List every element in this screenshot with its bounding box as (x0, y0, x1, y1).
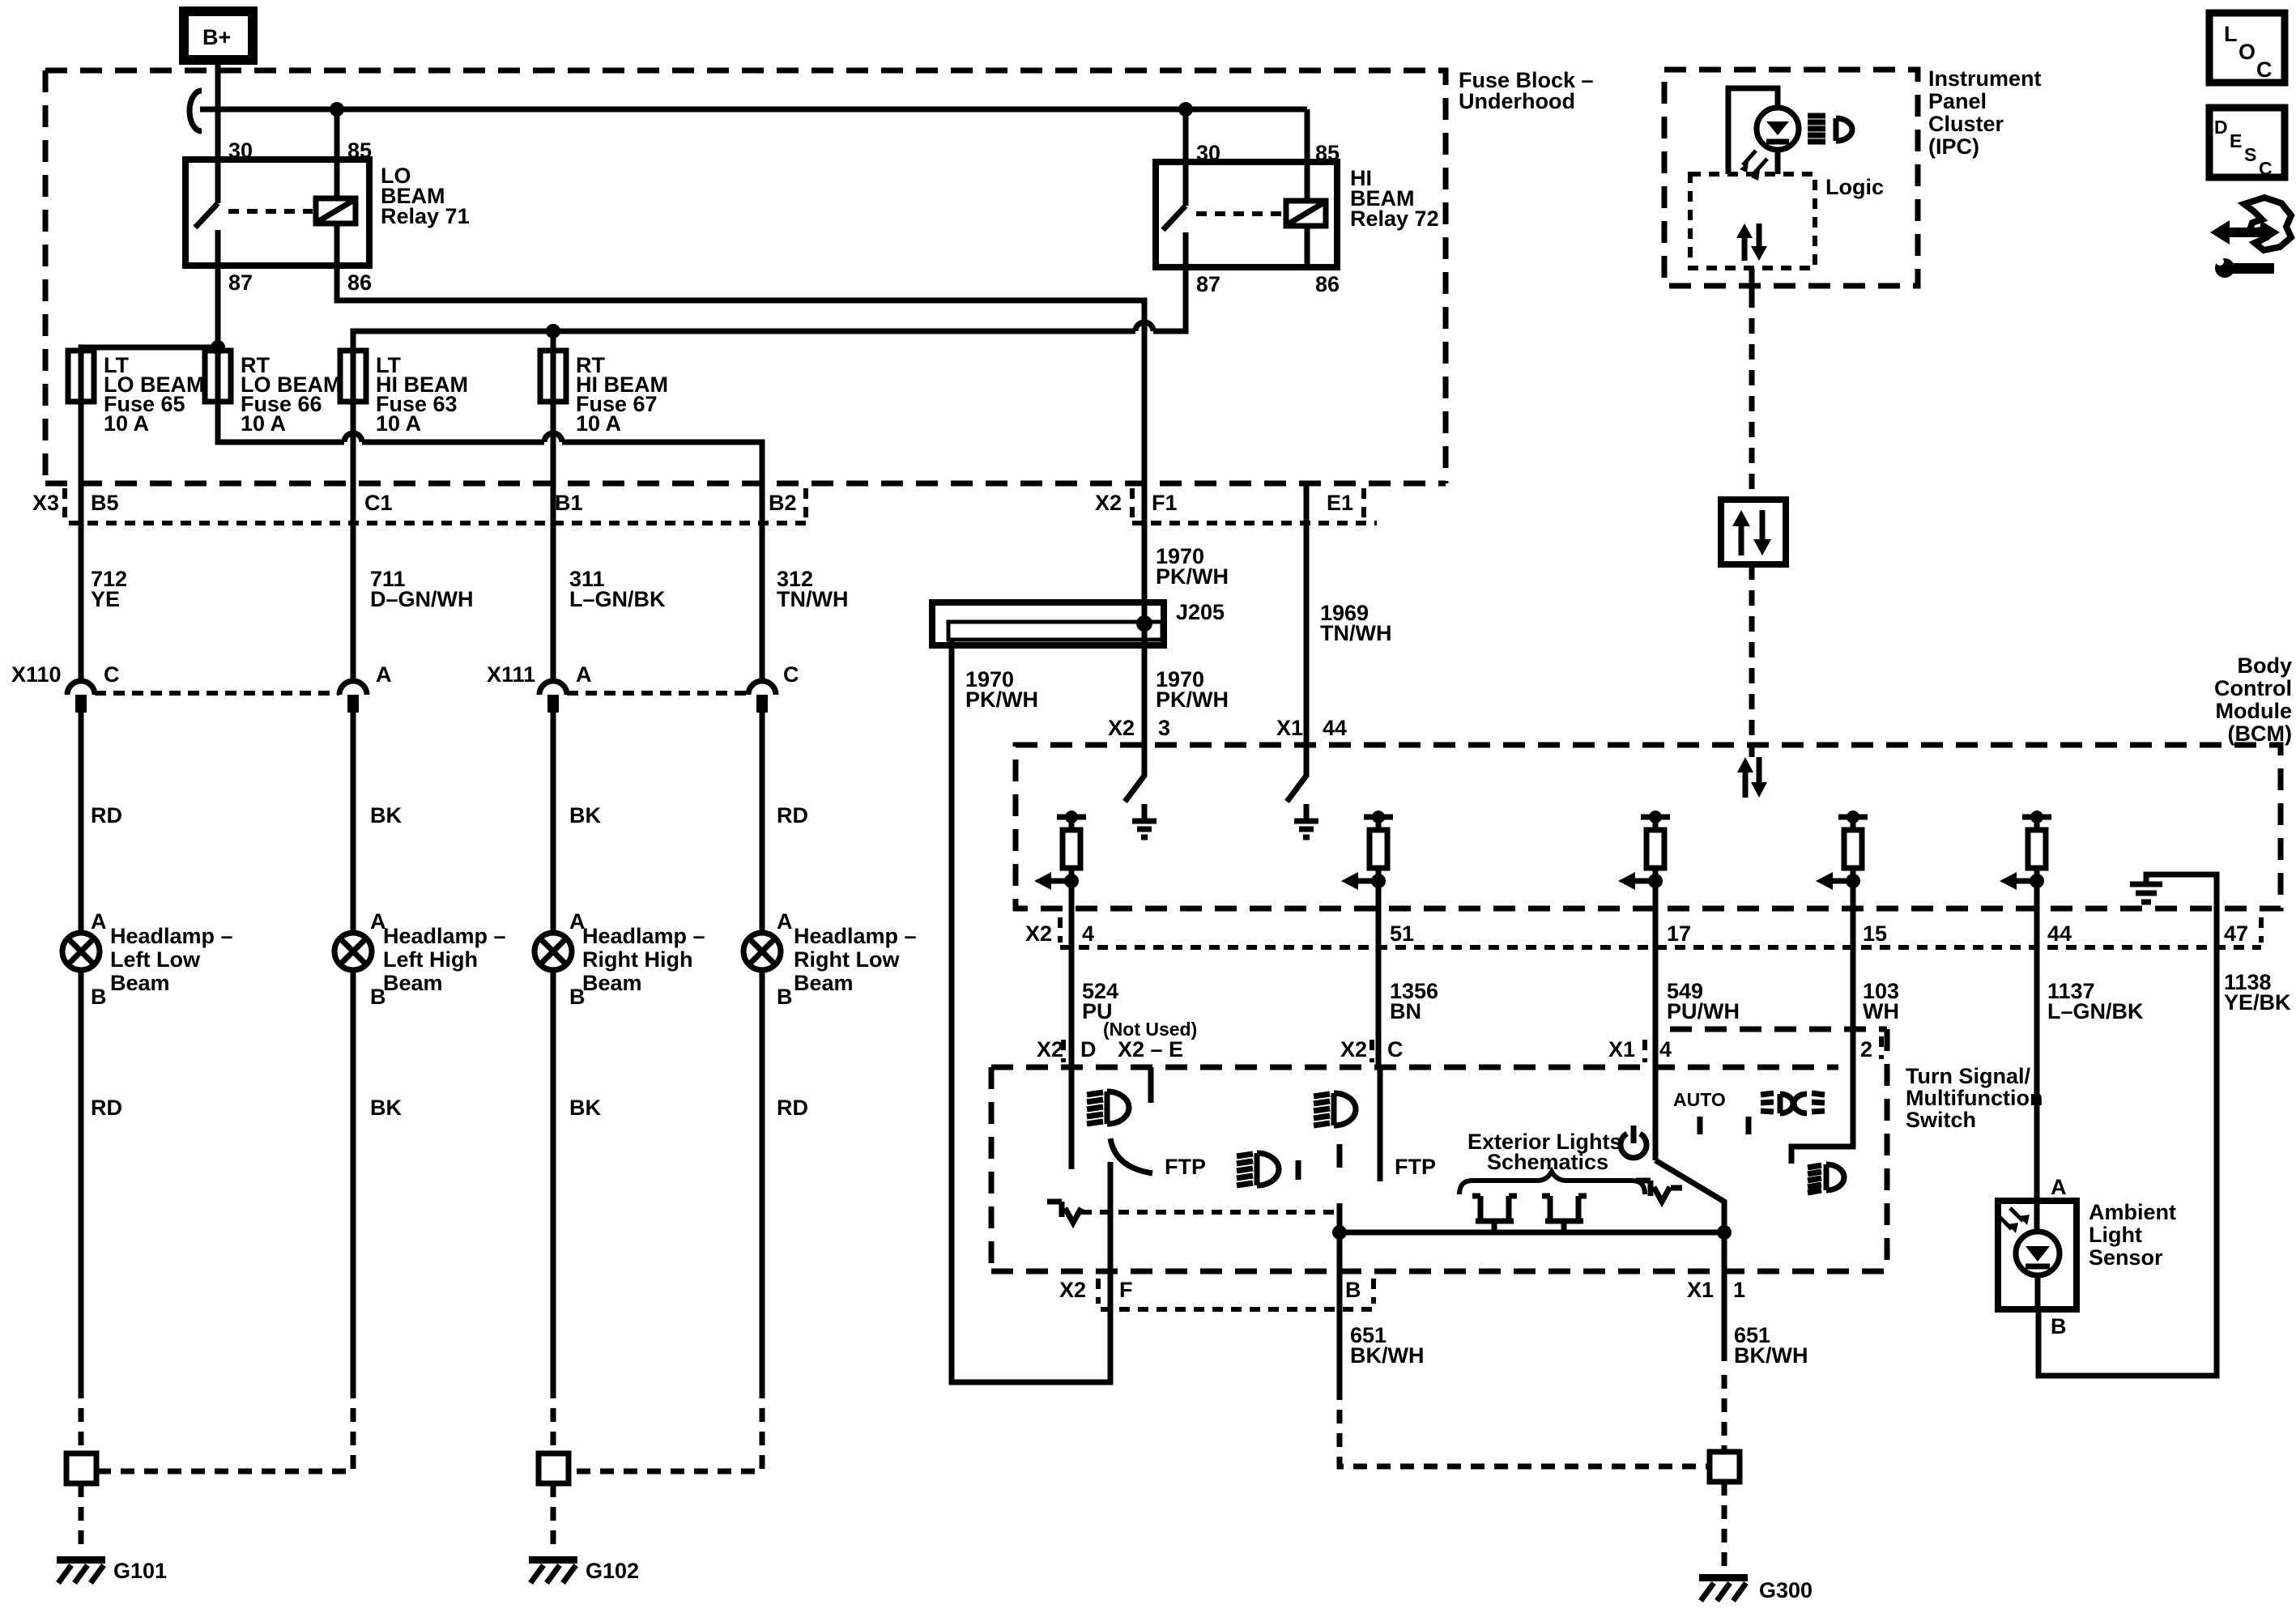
svg-text:C: C (104, 662, 120, 687)
BCM 47 separator dash (2259, 917, 2264, 943)
X3 separator dash (62, 488, 67, 518)
wire: 1138 YE/BK from BCM pin47 to ambient light sensor B (2038, 908, 2217, 1376)
detent dash under AUTO (1698, 1117, 1703, 1134)
svg-text:Control: Control (2214, 676, 2292, 700)
label: RD/BK wire colors (lower) (91, 1096, 808, 1120)
svg-text:B+: B+ (202, 25, 231, 49)
BCM serial data arrows (1737, 757, 1767, 798)
wire: left low headlamp ground lead (79, 970, 84, 1385)
dashed serial data line (box to BCM) (1749, 564, 1755, 757)
svg-text:B: B (2051, 1314, 2067, 1338)
label: Headlamp - Left High Beam (383, 924, 506, 995)
switch ganged-link symbol (right) (1636, 1181, 1682, 1202)
svg-text:B: B (1345, 1278, 1361, 1302)
wire: B+ feed bus to relay coils (y=135) (200, 107, 1307, 113)
label: BCM bottom pins (1025, 921, 2248, 946)
svg-text:87: 87 (228, 270, 253, 295)
DESC box (2209, 108, 2285, 179)
svg-text:Logic: Logic (1825, 175, 1884, 199)
ground G102 (529, 1556, 639, 1583)
switch blade (headlamp switch) (1655, 1160, 1724, 1232)
svg-text:C: C (2259, 158, 2273, 179)
wire: 524 PU from BCM pin4 to switch X2-D (1069, 908, 1075, 1067)
wire: J205 internal bus (948, 622, 1162, 640)
svg-text:Multifunction: Multifunction (1906, 1086, 2043, 1110)
serial data box arrows (1732, 510, 1771, 555)
wire: fuse 66 output bus to B2 (hops over C1 and B1 wires) (218, 402, 762, 483)
wrench icon (2215, 257, 2274, 278)
svg-text:L–GN/BK: L–GN/BK (2047, 999, 2144, 1023)
svg-text:BN: BN (1390, 999, 1421, 1023)
svg-text:B: B (569, 985, 586, 1009)
wire: B2 drop to X111-C (760, 483, 765, 680)
splice pack J205 box (932, 602, 1164, 645)
svg-text:Schematics: Schematics (1487, 1150, 1608, 1174)
label: Instrument Panel Cluster (IPC) (1928, 66, 2042, 159)
svg-text:FTP: FTP (1165, 1155, 1206, 1179)
label: switch bottom pins X2 F, B, X1 1 (1059, 1278, 1745, 1302)
relay LO BEAM Relay 71 box (185, 160, 369, 266)
connector row X2(F1/E1) lower dashed line (1132, 521, 1377, 526)
label: circuit 1970 PK/WH (right branch) (1156, 667, 1229, 712)
svg-text:85: 85 (1315, 141, 1340, 165)
svg-text:B5: B5 (91, 491, 119, 515)
BCM switch to ground (X1-44) (1287, 745, 1318, 837)
svg-text:Right High: Right High (582, 947, 692, 972)
relay 71 switch contact (195, 160, 218, 266)
IPC indicator LED (1740, 108, 1799, 181)
connector X111 terminal A (arc + blade) (539, 681, 567, 713)
svg-text:L: L (2224, 22, 2238, 46)
icon: low beam lamp (left of C contact) (1314, 1093, 1356, 1126)
hand with double arrow icon (2210, 198, 2291, 250)
lamp: Headlamp Right High Beam (535, 933, 572, 970)
wire: J205 left branch down to multifunction switch F loop (952, 640, 1110, 1382)
relay 72 pin labels (1196, 141, 1340, 296)
switch ganged-link symbol (left) (1047, 1202, 1081, 1223)
icon: headlamps-on (1761, 1093, 1825, 1113)
BCM connector row lower dashed line (1060, 945, 2261, 950)
svg-text:B1: B1 (555, 491, 583, 515)
label: circuit 1137 L-GN/BK (2047, 979, 2144, 1023)
svg-text:WH: WH (1863, 999, 1899, 1023)
fuse LT LO BEAM Fuse 65 (68, 351, 94, 402)
IPC indicator photodiode bracket (1728, 88, 1778, 174)
wire: C1 drop to X110-A (351, 483, 356, 680)
wire: 1356 BN from BCM pin51 to switch X2-C (1376, 908, 1382, 1067)
wire: logic box stub (1749, 268, 1755, 292)
svg-text:D–GN/WH: D–GN/WH (370, 587, 474, 611)
label: circuit 312 TN/WH (777, 567, 848, 611)
svg-text:Left Low: Left Low (110, 947, 201, 972)
svg-text:15: 15 (1863, 921, 1887, 946)
svg-text:AUTO: AUTO (1673, 1089, 1726, 1110)
inline connector square at G101 (66, 1453, 96, 1483)
wire: X1-4 feed to switch blade (1653, 1067, 1659, 1160)
switch bottom pin separators (1098, 1279, 1374, 1304)
svg-text:Headlamp –: Headlamp – (110, 924, 233, 948)
svg-text:17: 17 (1667, 921, 1691, 946)
label: X110 pins (11, 662, 392, 687)
wire: X2-D contact stub (1069, 1067, 1075, 1169)
wire: B 651 BK/WH below connector (1337, 1271, 1343, 1386)
svg-text:F: F (1119, 1278, 1133, 1302)
label: HI BEAM Relay 72 (1350, 166, 1439, 231)
svg-text:J205: J205 (1176, 600, 1225, 624)
B+ power terminal (184, 11, 253, 60)
wire: relay71 pin87 to lo-beam fuse bus (81, 266, 218, 351)
junction dot at B contact (1332, 1225, 1347, 1240)
svg-text:BK: BK (569, 1096, 601, 1120)
relay 71 pin labels (228, 138, 372, 295)
icon: low beam lamp (left of D contact) (1087, 1091, 1129, 1124)
svg-text:E1: E1 (1327, 491, 1353, 515)
svg-text:A: A (2051, 1175, 2067, 1199)
svg-text:X2: X2 (1340, 1037, 1367, 1062)
wire: BK to right high headlamp (551, 713, 556, 933)
fuse RT HI BEAM Fuse 67 (540, 351, 566, 402)
label: Fuse 65 (104, 353, 205, 436)
BCM driver output pin 4 (1034, 811, 1086, 908)
connection break hook symbol (190, 91, 202, 131)
wire: fuse 65 output to X3-B5 (79, 402, 84, 483)
wire: B+ feed down to relay 71 pin 30 (215, 60, 221, 160)
label: headlamp pin B row (91, 985, 793, 1009)
wire: 549 PU/WH from BCM pin17 to switch X1-4 (1653, 908, 1659, 1067)
wire: J205 right branch down to BCM X2-3 (1142, 624, 1148, 745)
X2-F1 separator dash (1130, 488, 1135, 518)
svg-text:Headlamp –: Headlamp – (582, 924, 705, 948)
svg-text:E: E (2230, 130, 2242, 151)
svg-text:Instrument: Instrument (1928, 66, 2042, 91)
relay 72 switch contact (1163, 162, 1186, 267)
svg-text:X111: X111 (487, 662, 535, 687)
svg-text:(BCM): (BCM) (2228, 721, 2292, 746)
connector X110 terminal A (arc + blade) (339, 681, 367, 713)
dashed serial data line (IPC to inline box) (1749, 292, 1755, 500)
svg-text:X2: X2 (1059, 1278, 1086, 1302)
wire: relay72 pin87 to hi-beam fuse bus (hops over 1413 wire) (353, 267, 1186, 351)
svg-text:TN/WH: TN/WH (1320, 621, 1391, 645)
label: circuit 1356 BN (1390, 979, 1438, 1023)
svg-text:2: 2 (1860, 1037, 1872, 1062)
wire: B1 drop to X111-A (551, 483, 556, 680)
label: circuit 549 PU/WH (1667, 979, 1740, 1023)
svg-text:BK: BK (370, 1096, 402, 1120)
wire: switch common bar (1340, 1230, 1724, 1236)
BCM internal ground for pin 47 (2130, 874, 2217, 908)
svg-text:B: B (777, 985, 793, 1009)
wire: right high headlamp ground lead (551, 970, 556, 1385)
svg-text:47: 47 (2224, 921, 2248, 946)
junction dot at relay71 pin85 feed (330, 102, 344, 117)
svg-text:4: 4 (1082, 921, 1094, 946)
connector row X3/X2 upper dashed line (45, 481, 1446, 487)
svg-text:10 A: 10 A (576, 411, 621, 436)
svg-text:Panel: Panel (1928, 89, 1987, 113)
wire: X2-E not used stub (1148, 1067, 1154, 1103)
svg-text:Sensor: Sensor (2089, 1245, 2163, 1270)
fixed contact mark above B (1337, 1144, 1343, 1168)
icon: low beam lamp (right branch) (1808, 1164, 1844, 1193)
ground G101 (57, 1556, 167, 1583)
svg-text:BK: BK (370, 803, 402, 828)
label: Headlamp - Left Low Beam (110, 924, 233, 995)
svg-text:RD: RD (777, 1096, 808, 1120)
relay 71 coil (316, 198, 356, 266)
wire: E1 1969 TN/WH down to BCM X1-44 (1304, 483, 1310, 745)
svg-text:Switch: Switch (1906, 1108, 1976, 1132)
svg-text:PK/WH: PK/WH (1156, 687, 1229, 712)
svg-text:Body: Body (2238, 653, 2293, 678)
junction dot in J205 (1136, 615, 1152, 632)
junction dot at common/blade (1717, 1225, 1732, 1240)
svg-text:Beam: Beam (794, 971, 854, 995)
LOC box (2209, 13, 2285, 83)
svg-text:X2: X2 (1037, 1037, 1063, 1062)
label: X111 pins (487, 662, 799, 687)
detent dash under headlamps-on icon (1746, 1117, 1752, 1134)
label: Turn Signal / Multifunction Switch (1906, 1064, 2043, 1132)
wire: B contact bar (1337, 1203, 1343, 1271)
svg-text:X1: X1 (1276, 716, 1303, 740)
svg-text:G300: G300 (1759, 1578, 1813, 1602)
svg-text:Relay 72: Relay 72 (1350, 206, 1439, 231)
label: BCM pin X1 44 (1276, 716, 1347, 740)
relay 72 linkage (dashed) (1196, 211, 1283, 216)
svg-text:BK/WH: BK/WH (1350, 1343, 1424, 1368)
svg-text:Left High: Left High (383, 947, 478, 972)
svg-text:O: O (2238, 40, 2256, 64)
power icon (1621, 1126, 1646, 1158)
label: circuit 1969 TN/WH (below E1) (1320, 601, 1391, 645)
label: LO BEAM Relay 71 (381, 164, 470, 228)
svg-text:X2: X2 (1108, 716, 1135, 740)
svg-text:C: C (1387, 1037, 1404, 1062)
IPC logic serial data arrows (1736, 223, 1767, 261)
svg-text:Beam: Beam (383, 971, 443, 995)
svg-text:C: C (783, 662, 799, 687)
BCM driver output pin 17 (1618, 811, 1670, 908)
svg-text:F1: F1 (1152, 491, 1178, 515)
svg-text:FTP: FTP (1395, 1155, 1436, 1179)
label: circuit 712 YE (91, 567, 127, 611)
BCM driver output pin 15 (1816, 811, 1868, 908)
label: circuit 651 BK/WH (left) (1350, 1323, 1424, 1368)
wire: 103 WH from BCM pin15 to switch X1-2 (1851, 908, 1856, 1029)
connector X111 terminal C (arc + blade) (748, 681, 776, 713)
wire: relay71 pin86 to F1 drop (1970 circuit feed) (337, 266, 1144, 483)
wire: hi bus drop to fuse 67 (551, 331, 556, 351)
svg-text:Relay 71: Relay 71 (381, 204, 470, 228)
svg-text:87: 87 (1196, 272, 1220, 296)
fuse RT LO BEAM Fuse 66 (205, 351, 231, 402)
label: Headlamp - Right High Beam (582, 924, 705, 995)
wire: F1 drop into J205 (1142, 483, 1148, 624)
svg-text:S: S (2244, 144, 2256, 165)
Body Control Module dashed box (1016, 745, 2281, 908)
wire: BK to left high headlamp (351, 713, 356, 933)
svg-text:A: A (576, 662, 592, 687)
wire: fuse 63 output to X3-C1 (351, 402, 356, 483)
svg-text:Headlamp –: Headlamp – (383, 924, 506, 948)
wire: B5 drop to X110-C (79, 483, 84, 680)
Turn Signal / Multifunction Switch dashed box (991, 1029, 1887, 1271)
svg-text:10 A: 10 A (104, 411, 149, 436)
X111 connector dashed link (567, 691, 748, 696)
svg-text:B: B (91, 985, 107, 1009)
dashed drop: BK to G101 splice (96, 1385, 353, 1471)
lamp: Headlamp Left Low Beam (62, 933, 100, 970)
svg-text:X2 – E: X2 – E (1118, 1037, 1183, 1062)
dashed drop: B wire to G300 splice (1340, 1386, 1708, 1466)
relay 72 coil (1286, 201, 1326, 267)
ground G300 (1699, 1574, 1813, 1602)
label: Headlamp - Right Low Beam (794, 924, 917, 995)
svg-text:Headlamp –: Headlamp – (794, 924, 917, 948)
dashed drop: RD to G101 splice (79, 1385, 84, 1453)
E1 separator dash (1361, 488, 1366, 518)
svg-text:Right Low: Right Low (794, 947, 900, 972)
svg-text:1: 1 (1733, 1278, 1745, 1302)
dashed mechanical linkage to B contact (1081, 1210, 1336, 1215)
wire: fuse 67 output to X3-B1 (551, 402, 556, 483)
junction dot: lo bus at fuse 66 (211, 340, 225, 355)
svg-text:BK: BK (569, 803, 601, 828)
label: circuit 711 D-GN/WH (370, 567, 474, 611)
label: Ambient Light Sensor (2089, 1200, 2176, 1270)
wire: X1-1 651 BK/WH below connector (1722, 1232, 1727, 1361)
switch pin separator dashes (1063, 1036, 1881, 1062)
wire: RD to left low headlamp (79, 713, 84, 933)
svg-text:G102: G102 (586, 1559, 639, 1583)
label: switch top pins X2 D, X2-E (Not Used), X2 C, X1 4, 2 (1037, 1019, 1872, 1062)
svg-text:Cluster: Cluster (1928, 112, 2004, 136)
svg-text:X1: X1 (1608, 1037, 1635, 1062)
svg-text:Beam: Beam (110, 971, 170, 995)
lamp: Headlamp Left High Beam (334, 933, 372, 970)
connector X110 terminal C (arc + blade) (67, 681, 95, 713)
label: Fuse Block - Underhood (1459, 68, 1594, 113)
svg-text:86: 86 (347, 270, 372, 295)
wire: feed into relay72 pin 30 (1183, 109, 1189, 206)
svg-text:44: 44 (2047, 921, 2072, 946)
ambient light sensor photodiode (1999, 1201, 2060, 1309)
dashed drop: X1-1 wire to G300 splice (1722, 1375, 1727, 1452)
label: circuit 524 PU (1082, 979, 1118, 1023)
label: X2 F1 E1 pins (1095, 491, 1353, 515)
BCM driver output pin 44 (2000, 811, 2051, 908)
svg-text:51: 51 (1390, 921, 1414, 946)
wire: feed into relay72 pin 85 (1305, 109, 1310, 201)
svg-text:10 A: 10 A (241, 411, 286, 436)
label: RD/BK wire colors (upper) (91, 803, 808, 828)
svg-text:86: 86 (1315, 272, 1340, 296)
svg-text:Light: Light (2089, 1223, 2142, 1247)
wire: right low headlamp ground lead (760, 970, 765, 1385)
svg-text:3: 3 (1158, 716, 1170, 740)
label: circuit 1138 YE/BK (2224, 970, 2291, 1015)
icon: low beam lamp (middle) (1237, 1153, 1279, 1185)
inline connector square at G300 (1710, 1452, 1740, 1482)
inline serial data box (1721, 500, 1786, 564)
svg-text:L–GN/BK: L–GN/BK (569, 587, 666, 611)
off-page contact fork (left) (1472, 1196, 1517, 1232)
svg-text:B: B (370, 985, 386, 1009)
svg-text:C: C (2256, 57, 2273, 82)
label: headlamp pin A row (91, 909, 793, 934)
dashed drop: square to G101 (79, 1483, 84, 1553)
svg-text:D: D (2214, 117, 2228, 138)
label: Fuse 66 (241, 353, 342, 436)
label: circuit 651 BK/WH (right) (1734, 1323, 1808, 1368)
wire: 1137 L-GN/BK from BCM pin44 to ambient light sensor A (2034, 908, 2040, 1201)
svg-text:Turn Signal/: Turn Signal/ (1906, 1064, 2030, 1088)
svg-text:X3: X3 (32, 491, 59, 515)
svg-text:(IPC): (IPC) (1928, 134, 1979, 159)
wire: left high headlamp ground lead (351, 970, 356, 1385)
X110 connector dashed link (95, 691, 339, 696)
wire: X2-C contact stub (1378, 1067, 1383, 1181)
dashed drop: square to G102 (551, 1483, 556, 1553)
svg-text:TN/WH: TN/WH (777, 587, 848, 611)
label: circuit 311 L-GN/BK (569, 567, 666, 611)
switch bottom connector second dashed line (1101, 1307, 1374, 1312)
svg-text:A: A (91, 909, 107, 934)
svg-text:A: A (777, 909, 793, 934)
svg-text:Beam: Beam (582, 971, 642, 995)
dashed drop: BK to G102 splice (551, 1385, 556, 1453)
wire: X1-2 103 WH elbow to lamp contact (1791, 1029, 1853, 1164)
off-page contact fork (right) (1542, 1196, 1587, 1232)
svg-text:X2: X2 (1095, 491, 1122, 515)
label: X3 connector pins (32, 491, 797, 515)
svg-text:A: A (376, 662, 392, 687)
svg-text:Module: Module (2216, 699, 2293, 723)
svg-text:BK/WH: BK/WH (1734, 1343, 1808, 1368)
svg-text:B2: B2 (769, 491, 797, 515)
dashed drop: RD to G102 splice (569, 1385, 762, 1471)
svg-text:Underhood: Underhood (1459, 89, 1575, 113)
IPC Logic dashed box (1690, 174, 1815, 268)
brace over contact forks (1459, 1172, 1645, 1194)
svg-text:X2: X2 (1025, 921, 1052, 946)
junction dot at relay72 pin30 feed (1178, 102, 1193, 117)
svg-text:YE/BK: YE/BK (2224, 990, 2291, 1015)
connector row X3 lower dashed line (69, 521, 806, 526)
label: Body Control Module (BCM) (2214, 653, 2292, 746)
relay HI BEAM Relay 72 box (1156, 162, 1337, 267)
label: BCM pin X2 3 (1108, 716, 1170, 740)
junction dot: hi bus to fuse 67 (546, 324, 560, 338)
fuse LT HI BEAM Fuse 63 (340, 351, 366, 402)
svg-text:RD: RD (91, 1096, 122, 1120)
label: circuit 1970 PK/WH (below F1) (1156, 544, 1229, 589)
small contact mark right of middle lamp (1296, 1160, 1301, 1180)
IPC high beam indicator icon (1808, 116, 1852, 142)
svg-text:RD: RD (777, 803, 808, 828)
Instrument Panel Cluster dashed box (1664, 70, 1918, 286)
BCM switch to ground (X2-3) (1125, 745, 1157, 837)
flash-to-pass contact arc (1110, 1138, 1152, 1173)
Fuse Block - Underhood dashed box (45, 70, 1446, 483)
label: circuit 103 WH (1863, 979, 1899, 1023)
svg-text:10 A: 10 A (376, 411, 421, 436)
svg-text:X110: X110 (11, 662, 62, 687)
svg-text:44: 44 (1323, 716, 1347, 740)
Ambient Light Sensor box (1998, 1201, 2077, 1309)
B2 separator dash (803, 488, 808, 518)
